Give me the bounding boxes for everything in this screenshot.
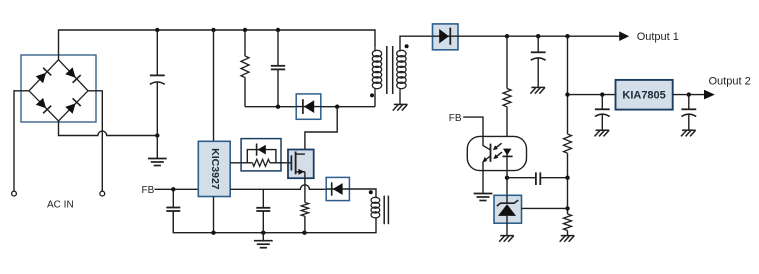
wire Q1 source down [304, 172, 306, 203]
ground (3-bar) at C1 [148, 158, 167, 160]
junction bridge-bottom / C1 [155, 133, 159, 137]
wire opto LED cathode down [506, 156, 508, 195]
svg-text:Output 1: Output 1 [637, 31, 679, 43]
ground (3-bar) primary return [262, 233, 264, 241]
junction clamp node at C2 [276, 105, 280, 109]
junction rail at R2 [505, 34, 509, 38]
resistor R1 (clamp) [244, 30, 246, 56]
ground (chassis) divider [561, 235, 575, 237]
wire U1 gate out [230, 162, 241, 164]
wire regulator output [673, 94, 705, 96]
junction rail at C5 [536, 34, 540, 38]
resistor R2 (opto LED series) [506, 36, 508, 88]
optocoupler light arrows [496, 143, 502, 148]
gate network box [241, 139, 281, 171]
wire secondary return [399, 92, 401, 104]
junction divider / TL431 ref [565, 206, 569, 210]
wire secondary top to D6 [400, 36, 433, 48]
arrow Output 2 [704, 90, 715, 100]
junction drain tap [335, 105, 339, 109]
optocoupler U3 body [467, 136, 526, 170]
capacitor C4 (VCC filter) [262, 189, 264, 207]
resistor R4 (divider lower) [564, 214, 572, 231]
junction divider / regulator feed [565, 92, 569, 96]
wire U1 VCC line with crossover hop [230, 185, 326, 189]
wire bottom return rail [173, 211, 376, 233]
bridge diamond wires [29, 60, 88, 121]
MOSFET Q1 symbol [288, 162, 291, 164]
wire R6 to rail [304, 216, 306, 233]
arrow Output 1 [619, 31, 629, 41]
shunt regulator U4 symbol [506, 195, 508, 204]
junction at C7 [687, 92, 691, 96]
transformer T1 primary winding [374, 48, 376, 52]
optocoupler phototransistor base bar [490, 144, 492, 162]
wire gate box to Q1 [281, 162, 288, 164]
ground (chassis) TL431 [500, 235, 514, 237]
capacitor C8 (compensation) [507, 177, 536, 179]
AC terminal left [12, 191, 17, 196]
transformer T1 phase dot (aux) [369, 190, 373, 194]
wire opto emitter to ground [482, 162, 484, 194]
junction rail / R6 [302, 231, 306, 235]
diode D8 (points left) [326, 188, 349, 190]
wire rail to U1 top pin [213, 30, 215, 141]
diode D6 (points right) [433, 35, 459, 37]
diode D6 box (output rectifier) [433, 24, 459, 50]
controller U1 KIC3927 box [198, 141, 230, 196]
transformer T1 aux winding [371, 197, 380, 203]
wire FB to optocoupler [463, 117, 483, 136]
junction FB / C3 [171, 187, 175, 191]
svg-text:FB: FB [449, 113, 462, 124]
wire to regulator input [568, 94, 616, 96]
wire MOSFET drain [305, 107, 337, 155]
wire clamp to primary [321, 106, 375, 108]
capacitor C1 (bulk, polarized) [156, 30, 158, 75]
junction divider / C8 [565, 176, 569, 180]
junction at C6 [600, 92, 604, 96]
bridge diode D3 (left-bottom edge) [36, 98, 46, 108]
svg-text:KIA7805: KIA7805 [622, 90, 665, 102]
transformer T1 core [386, 46, 388, 94]
junction rail / C4 ground [261, 231, 265, 235]
diode D5 (points left) [296, 106, 321, 108]
wire U1 bottom to rail [213, 197, 215, 233]
capacitor C3 (FB filter) [172, 189, 174, 207]
junction on rail at U1 supply [211, 28, 215, 32]
transformer T1 phase dot (secondary) [405, 44, 409, 48]
shunt regulator U4 box [494, 195, 522, 223]
AC terminal right [100, 191, 105, 196]
resistor R3 (divider upper) [564, 134, 572, 153]
wire FB to U1 [155, 188, 199, 190]
junction on rail at C2 [276, 28, 280, 32]
junction rail / U1 [211, 231, 215, 235]
ground (chassis) at C7 [682, 129, 696, 131]
wire top DC rail [59, 30, 376, 60]
bridge diode D1 (left-top edge) [36, 73, 46, 83]
transformer T1 secondary winding [399, 48, 401, 52]
junction LED cathode / C8 [505, 176, 509, 180]
capacitor C2 (clamp) [277, 30, 279, 65]
transformer T1 aux core [383, 196, 385, 225]
wire bridge right to AC terminal [88, 91, 102, 191]
wire bridge bottom with crossover hop [59, 121, 158, 136]
ground (chassis) secondary [394, 103, 408, 105]
wire divider middle [567, 153, 569, 214]
svg-text:KIC3927: KIC3927 [209, 148, 221, 190]
ground (chassis) at C6 [596, 129, 610, 131]
junction on rail at C1 [155, 28, 159, 32]
junction on rail at R1 [243, 28, 247, 32]
gate diode branch wires [247, 150, 276, 163]
resistor R5 (gate) [241, 162, 252, 164]
wire divider upper [567, 36, 569, 134]
diode D7 (gate, points left) [256, 144, 258, 156]
ground (chassis) at C5 [531, 86, 545, 88]
diode D5 box (clamp) [296, 94, 321, 119]
svg-text:AC IN: AC IN [47, 200, 74, 211]
wire D8 to aux winding [349, 189, 376, 198]
capacitor C6 (regulator input, polarized) [601, 95, 603, 110]
svg-text:FB: FB [142, 185, 155, 196]
bridge rectifier BR1 box [21, 55, 96, 122]
bridge diode D4 (bottom-right edge) [65, 103, 75, 113]
ground (3-bar) opto emitter [474, 193, 493, 195]
wire divider to ground [567, 231, 569, 236]
capacitor C5 (output1, polarized) [537, 36, 539, 52]
transformer T1 phase dot (primary) [370, 93, 374, 97]
junction rail at divider [565, 34, 569, 38]
bridge diode D2 (top-right edge) [65, 67, 75, 77]
optocoupler LED [506, 149, 508, 157]
optocoupler phototransistor emitter [483, 156, 490, 161]
diode D8 box (VCC rectifier) [326, 177, 349, 200]
wire TL431 ref [522, 207, 568, 209]
wire output1 rail [458, 35, 619, 37]
wire TL431 anode to ground [506, 223, 508, 235]
regulator U2 KIA7805 box [616, 80, 673, 110]
svg-text:Output 2: Output 2 [709, 75, 751, 87]
resistor R6 (current sense) [301, 203, 308, 217]
capacitor C7 (regulator output, polarized) [688, 95, 690, 110]
MOSFET Q1 box [288, 150, 314, 179]
optocoupler phototransistor collector [483, 136, 490, 149]
wire bridge left to AC terminal [14, 91, 29, 191]
wire clamp node [245, 106, 296, 108]
